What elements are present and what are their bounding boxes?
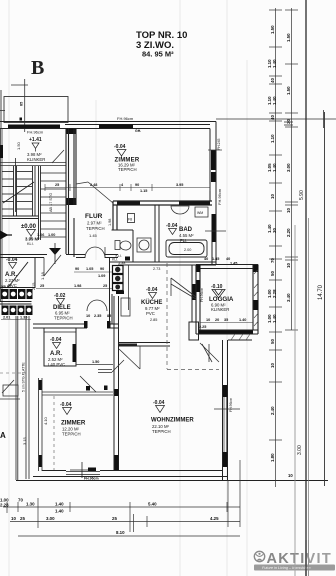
left outer wall lower bbox=[16, 316, 42, 480]
diele door arc bbox=[87, 300, 107, 311]
svg-text:WOHNZIMMER: WOHNZIMMER bbox=[151, 418, 194, 424]
svg-text:KLI.: KLI. bbox=[27, 242, 34, 246]
svg-text:10: 10 bbox=[86, 314, 90, 318]
svg-text:FH.245: FH.245 bbox=[217, 138, 221, 150]
long dim lines over logo bbox=[305, 540, 307, 576]
reference line top right bbox=[216, 118, 336, 120]
door zimmer2 top bbox=[42, 360, 124, 395]
AR1 labels bbox=[5, 257, 45, 288]
svg-text:2.85: 2.85 bbox=[150, 318, 157, 322]
meter boxes row1 bbox=[1, 285, 33, 299]
top wall band bbox=[0, 122, 216, 129]
svg-text:1.50: 1.50 bbox=[286, 33, 291, 42]
svg-text:1.40: 1.40 bbox=[272, 163, 277, 172]
plus-minus 0.00 level mark bbox=[21, 224, 55, 246]
stair bottom wall bbox=[2, 216, 39, 219]
svg-text:2.73: 2.73 bbox=[153, 267, 160, 271]
svg-text:1.40: 1.40 bbox=[55, 502, 64, 507]
dim line y288 bbox=[36, 288, 112, 290]
entrance arrow black bbox=[0, 231, 9, 240]
svg-text:1.50: 1.50 bbox=[92, 360, 99, 364]
svg-text:3.99 M²: 3.99 M² bbox=[25, 237, 40, 242]
svg-text:-0.04: -0.04 bbox=[50, 337, 62, 343]
bathtub bbox=[166, 240, 207, 257]
svg-text:1.38: 1.38 bbox=[118, 261, 125, 265]
svg-text:2.15: 2.15 bbox=[32, 283, 36, 290]
svg-text:5 cm STG.PLATTE: 5 cm STG.PLATTE bbox=[22, 362, 26, 392]
svg-text:50: 50 bbox=[270, 271, 275, 276]
svg-text:TEPPICH: TEPPICH bbox=[86, 226, 105, 231]
svg-text:10: 10 bbox=[270, 194, 275, 199]
BAD labels bbox=[166, 223, 194, 243]
dashed left area bbox=[0, 373, 54, 470]
DIELE bottom wall + door bbox=[33, 324, 118, 328]
svg-text:1.80: 1.80 bbox=[270, 453, 275, 462]
scan streaks bbox=[9, 0, 247, 576]
svg-text:FH.96cm: FH.96cm bbox=[217, 188, 222, 205]
svg-text:84. 95 M²: 84. 95 M² bbox=[142, 50, 174, 59]
svg-text:50: 50 bbox=[270, 339, 275, 344]
dim numbers above partition bbox=[86, 314, 111, 318]
sink unit square bbox=[137, 238, 151, 252]
stair arrow bbox=[3, 158, 34, 212]
svg-text:35: 35 bbox=[224, 318, 228, 322]
svg-text:40: 40 bbox=[204, 257, 208, 261]
svg-text:1.40: 1.40 bbox=[272, 314, 277, 323]
svg-text:25: 25 bbox=[40, 284, 44, 288]
svg-text:2.28: 2.28 bbox=[0, 503, 9, 508]
stairs middle flight bbox=[17, 172, 33, 210]
LOGGIA labels bbox=[209, 284, 234, 312]
svg-text:1.06: 1.06 bbox=[37, 233, 44, 237]
svg-text:1.98: 1.98 bbox=[74, 284, 81, 288]
svg-text:3.40: 3.40 bbox=[286, 293, 291, 302]
klinker room bbox=[0, 128, 66, 307]
klinker labels bbox=[16, 137, 45, 162]
svg-text:90: 90 bbox=[135, 183, 139, 187]
pillar below kuche wall bbox=[189, 322, 199, 340]
svg-text:1.09: 1.09 bbox=[98, 274, 105, 278]
svg-text:14.70: 14.70 bbox=[318, 284, 324, 300]
svg-text:10: 10 bbox=[11, 516, 16, 521]
loggia bottom door diagonals bbox=[200, 343, 219, 362]
svg-text:FH.96cm: FH.96cm bbox=[229, 398, 233, 412]
svg-text:10: 10 bbox=[270, 363, 275, 368]
WC door arc bbox=[85, 247, 105, 258]
kuche right wall bbox=[192, 265, 196, 322]
svg-text:1.45: 1.45 bbox=[230, 262, 237, 266]
svg-text:1.50: 1.50 bbox=[16, 141, 21, 150]
svg-text:70: 70 bbox=[270, 258, 275, 263]
svg-text:-0.04: -0.04 bbox=[146, 287, 158, 293]
left door swing bbox=[2, 380, 14, 393]
svg-text:1.50: 1.50 bbox=[270, 25, 275, 34]
light line x295 lower bbox=[294, 225, 296, 576]
svg-text:25: 25 bbox=[55, 183, 59, 187]
wc room walls bbox=[112, 205, 160, 262]
svg-text:1.15: 1.15 bbox=[140, 189, 147, 193]
WOHNZIMMER labels bbox=[151, 400, 194, 434]
second light long line bbox=[308, 218, 310, 576]
svg-text:30: 30 bbox=[272, 228, 277, 233]
kitchen left elements bbox=[121, 265, 130, 316]
klinker window dark + door swing bbox=[0, 145, 3, 158]
svg-text:1.30: 1.30 bbox=[26, 502, 35, 507]
svg-text:25: 25 bbox=[20, 516, 25, 521]
loggia corner jambs bbox=[197, 265, 259, 334]
svg-text:1.85: 1.85 bbox=[212, 257, 219, 261]
svg-text:AB 17 STG: AB 17 STG bbox=[49, 193, 53, 212]
svg-text:1.05: 1.05 bbox=[86, 267, 93, 271]
svg-text:+1.41: +1.41 bbox=[29, 137, 42, 143]
bottom wall lower block bbox=[16, 471, 328, 481]
svg-text:1.40: 1.40 bbox=[272, 59, 277, 68]
svg-text:10: 10 bbox=[286, 208, 291, 213]
stair rails bbox=[14, 166, 41, 240]
dim labels above loggia bbox=[204, 257, 237, 266]
WM box bbox=[195, 207, 208, 217]
svg-text:2.01: 2.01 bbox=[3, 316, 10, 320]
shaft boxes column bbox=[113, 266, 124, 291]
svg-text:90: 90 bbox=[100, 267, 104, 271]
entry door swing bbox=[44, 255, 61, 276]
F8 radiator box bbox=[128, 214, 135, 223]
right dim chain 2 bbox=[285, 8, 298, 330]
bad washbasin bbox=[171, 206, 189, 214]
svg-text:1.40: 1.40 bbox=[239, 318, 246, 322]
svg-text:4.10: 4.10 bbox=[43, 416, 48, 425]
svg-text:-0.04: -0.04 bbox=[60, 402, 72, 408]
svg-text:-0.02: -0.02 bbox=[54, 293, 66, 299]
svg-text:TEPPICH: TEPPICH bbox=[54, 316, 73, 321]
svg-text:3.00: 3.00 bbox=[286, 163, 291, 172]
zimmer bottom wall bbox=[113, 201, 212, 230]
svg-text:1.40: 1.40 bbox=[55, 509, 64, 514]
svg-text:2.48: 2.48 bbox=[90, 183, 97, 187]
dim line y187 bbox=[45, 184, 210, 191]
bottom dim row 1 bbox=[3, 460, 240, 532]
svg-text:2.28: 2.28 bbox=[272, 289, 277, 298]
svg-text:L40 PVC: L40 PVC bbox=[48, 362, 65, 367]
crosshair top-left bbox=[0, 79, 28, 132]
dark segs zimmer bottom wall bbox=[117, 202, 140, 206]
svg-text:5.40: 5.40 bbox=[148, 502, 157, 507]
dim line below meters bbox=[1, 319, 31, 321]
svg-text:2.97 M²: 2.97 M² bbox=[87, 221, 102, 226]
svg-text:4.25: 4.25 bbox=[210, 516, 219, 521]
window dark segs top wall bbox=[8, 125, 133, 129]
balcony top-left bbox=[1, 90, 68, 128]
svg-text:5.90: 5.90 bbox=[299, 190, 305, 200]
svg-text:25: 25 bbox=[103, 284, 107, 288]
bottom window bbox=[66, 462, 100, 478]
dashed lines wohnzimmer bbox=[167, 263, 219, 370]
svg-text:70: 70 bbox=[18, 498, 23, 503]
svg-text:40: 40 bbox=[226, 257, 230, 261]
zimmer1 labels bbox=[114, 144, 140, 172]
ZIMMER2 labels bbox=[60, 402, 86, 437]
svg-text:10: 10 bbox=[206, 318, 210, 322]
AR1 walls bbox=[0, 258, 35, 289]
meter boxes row2 bbox=[2, 306, 33, 316]
svg-text:3.00: 3.00 bbox=[297, 445, 303, 455]
FLUR labels bbox=[85, 213, 112, 238]
svg-text:2.25: 2.25 bbox=[199, 325, 206, 329]
right wall upper bbox=[210, 122, 216, 266]
stair block lower boundary bbox=[0, 302, 32, 305]
svg-text:±0.00: ±0.00 bbox=[21, 224, 37, 230]
svg-text:B: B bbox=[31, 57, 44, 79]
svg-text:TEPPICH: TEPPICH bbox=[62, 432, 81, 437]
svg-text:TEPPICH: TEPPICH bbox=[152, 429, 171, 434]
svg-text:2.40: 2.40 bbox=[270, 406, 275, 415]
svg-text:3.15: 3.15 bbox=[22, 436, 27, 445]
stairs right flight bbox=[41, 173, 67, 237]
DIELE labels bbox=[32, 283, 73, 321]
kitchen bottom wall bbox=[119, 343, 171, 347]
door swing zimmer-flur bbox=[88, 182, 113, 203]
loggia walls bbox=[196, 265, 258, 335]
svg-text:2.20: 2.20 bbox=[286, 228, 291, 237]
loggia door swing bbox=[171, 278, 196, 299]
chain2 labels bbox=[286, 33, 291, 302]
DIELE/shaft divider wall bbox=[110, 258, 113, 325]
svg-text:TEPPICH: TEPPICH bbox=[118, 167, 137, 172]
svg-text:F8: F8 bbox=[128, 218, 132, 222]
svg-text:A: A bbox=[0, 431, 6, 440]
svg-text:-0.04: -0.04 bbox=[114, 144, 126, 150]
svg-text:3.95: 3.95 bbox=[176, 183, 183, 187]
logo banner bbox=[254, 565, 335, 571]
svg-text:85: 85 bbox=[20, 102, 24, 106]
svg-text:PVC: PVC bbox=[146, 311, 155, 316]
svg-text:1.00: 1.00 bbox=[48, 233, 55, 237]
right dim chain 1 bbox=[269, 8, 282, 487]
toilet bbox=[115, 241, 131, 251]
door swing kitchen bbox=[119, 349, 140, 369]
small box top-left lower block bbox=[0, 385, 20, 399]
svg-text:1.40: 1.40 bbox=[272, 96, 277, 105]
svg-text:-0.04: -0.04 bbox=[166, 223, 178, 229]
bottom dim row 2 bbox=[10, 521, 240, 523]
title text block bbox=[136, 30, 187, 59]
svg-text:1.18: 1.18 bbox=[40, 271, 45, 280]
svg-text:-0.04: -0.04 bbox=[153, 400, 165, 406]
svg-text:GH.: GH. bbox=[135, 129, 141, 133]
svg-text:1.10: 1.10 bbox=[270, 134, 275, 143]
svg-text:2.00: 2.00 bbox=[184, 248, 191, 252]
svg-text:1.98: 1.98 bbox=[108, 219, 112, 226]
svg-text:KLINKER: KLINKER bbox=[27, 157, 45, 162]
svg-text:90: 90 bbox=[75, 267, 79, 271]
chain1 labels bbox=[267, 25, 277, 462]
svg-text:FH.96cm: FH.96cm bbox=[200, 288, 204, 302]
dim line y272 bbox=[74, 271, 112, 273]
svg-text:10: 10 bbox=[288, 473, 293, 478]
svg-text:Future in Living – Immobilien: Future in Living – Immobilien bbox=[262, 566, 311, 570]
svg-text:FH.96cm: FH.96cm bbox=[84, 477, 99, 481]
svg-text:KÜCHE: KÜCHE bbox=[141, 299, 162, 306]
svg-text:25: 25 bbox=[112, 516, 117, 521]
logo icon bbox=[254, 551, 264, 561]
svg-text:20: 20 bbox=[215, 318, 219, 322]
svg-text:3.00: 3.00 bbox=[46, 516, 55, 521]
svg-text:8.10: 8.10 bbox=[116, 530, 125, 535]
partition wall x114-119 bbox=[114, 296, 119, 471]
KUCHE labels bbox=[118, 261, 162, 322]
svg-text:FH.96cm: FH.96cm bbox=[117, 116, 134, 121]
svg-text:1.50: 1.50 bbox=[286, 86, 291, 95]
long line 14.70 bbox=[324, 112, 326, 486]
equals mark chain2 top bbox=[284, 122, 293, 125]
svg-text:VB.ET: VB.ET bbox=[1, 285, 12, 289]
svg-text:85: 85 bbox=[107, 314, 111, 318]
loggia hatch bbox=[254, 270, 258, 326]
north arrow bbox=[49, 248, 61, 255]
AR2 room bbox=[44, 328, 76, 366]
svg-text:1.45: 1.45 bbox=[89, 233, 98, 238]
svg-text:2.35: 2.35 bbox=[94, 314, 101, 318]
svg-text:10: 10 bbox=[286, 263, 291, 268]
long line 5.90 bbox=[305, 0, 307, 576]
svg-text:40: 40 bbox=[270, 78, 275, 83]
hatched stub wall right bbox=[228, 334, 252, 340]
main inner wall x66-76 bbox=[66, 129, 76, 135]
svg-text:ZIMMER: ZIMMER bbox=[61, 420, 86, 427]
svg-text:-0.04: -0.04 bbox=[6, 257, 18, 263]
dim row inside loggia bbox=[199, 318, 246, 329]
svg-text:WM: WM bbox=[197, 211, 203, 215]
window dark seg right wall bbox=[211, 150, 216, 170]
svg-text:FLUR: FLUR bbox=[85, 213, 103, 220]
right outer wall lower bbox=[223, 340, 228, 480]
svg-text:KLINKER: KLINKER bbox=[211, 307, 229, 312]
svg-text:FH.96cm: FH.96cm bbox=[27, 130, 44, 135]
bottom wall of upper block bbox=[0, 255, 216, 266]
bottom dim row 3 bbox=[18, 535, 240, 537]
stairs left flight bbox=[2, 172, 14, 210]
